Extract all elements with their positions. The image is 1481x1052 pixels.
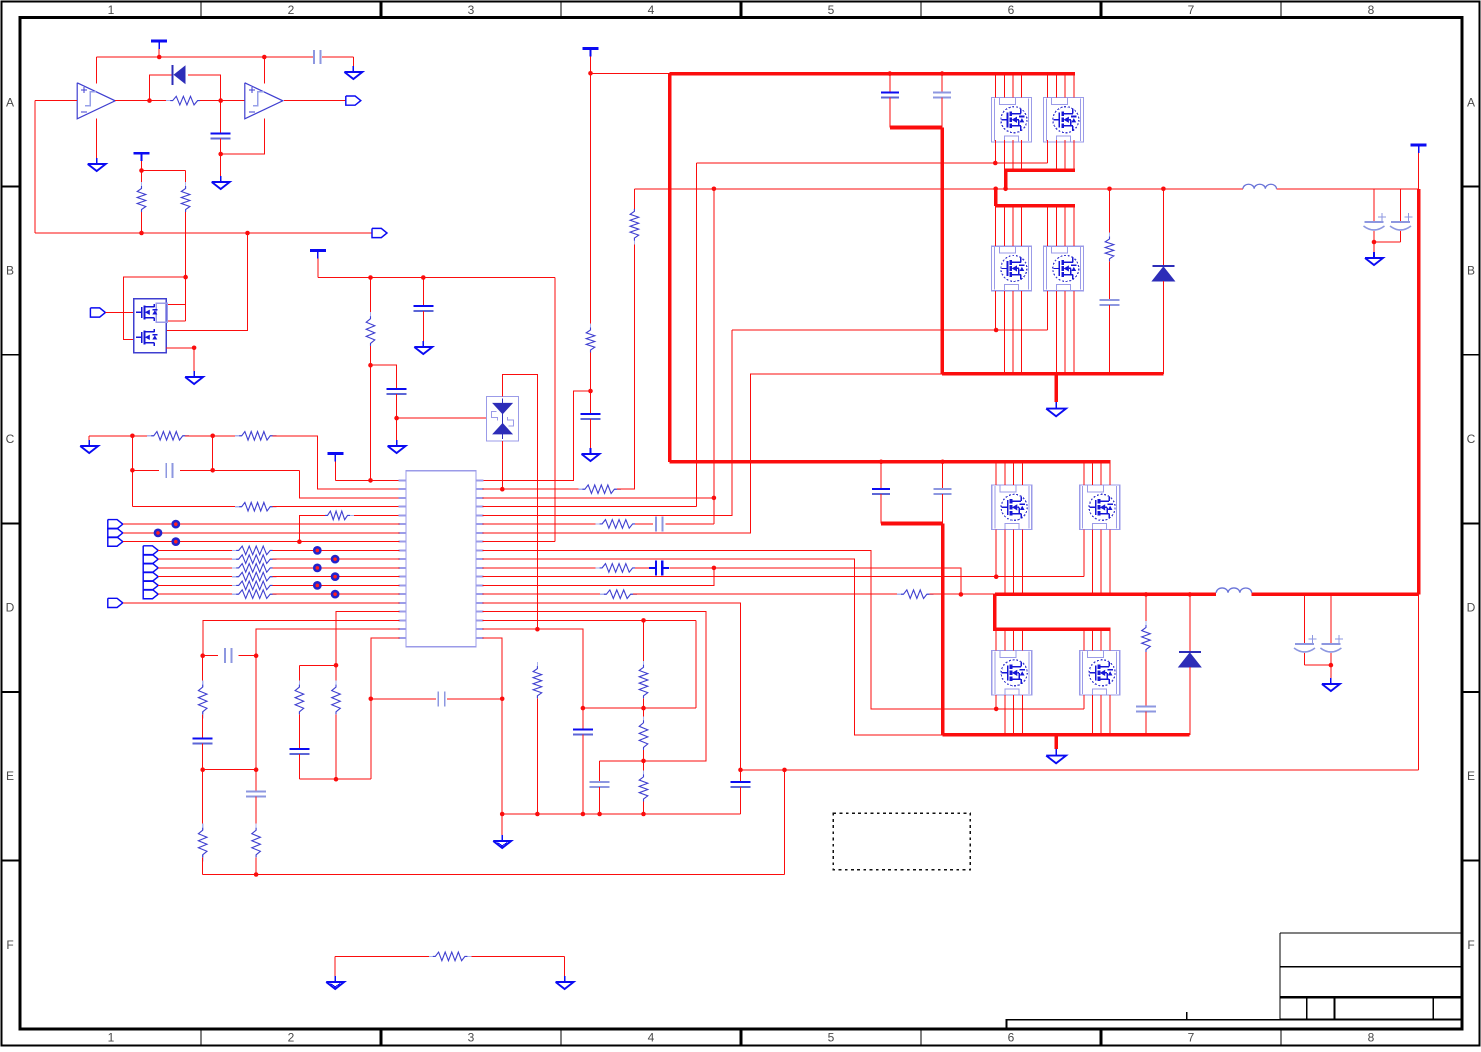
svg-text:4: 4 [648, 3, 655, 17]
svg-text:3: 3 [468, 3, 475, 17]
wire U1A out [115, 100, 170, 102]
row4R [483, 506, 697, 508]
wire snub x396 [371, 365, 397, 389]
capacitor C-655 [224, 648, 226, 663]
wire U1B out [284, 100, 346, 102]
wire x554 down [554, 278, 556, 542]
row18L [256, 629, 399, 656]
power VCC4 (x317) [310, 249, 326, 252]
row12R gate2hi [483, 576, 1084, 578]
capacitor C-comp [437, 691, 439, 706]
capacitor Cout1a [1373, 189, 1375, 222]
resistor R-x370 [370, 278, 372, 317]
wire vcc4 rail [318, 277, 555, 279]
capacitor C-x396 [387, 388, 407, 390]
wire cin gnd thick [890, 126, 942, 130]
row3R [483, 497, 714, 499]
wire fb to U1B [221, 118, 265, 154]
svg-text:2: 2 [288, 3, 295, 17]
resistor R-643c [643, 770, 645, 777]
row15R [483, 603, 741, 770]
row11R [483, 567, 600, 569]
row19R [483, 638, 503, 814]
resistor Ra [147, 435, 154, 437]
wire lowbus2 thick [995, 594, 1111, 629]
port GATE-IN [90, 308, 105, 317]
wire diode loop [150, 75, 173, 101]
network B top [299, 664, 336, 666]
snubber R1 [1109, 189, 1111, 237]
row14R [483, 593, 604, 595]
wire row1R jog [483, 391, 591, 480]
ground U1A [96, 158, 98, 164]
row8R [483, 541, 555, 543]
wire top rail [97, 56, 313, 58]
capacitor C-row11R bold [655, 560, 657, 575]
svg-text:F: F [1467, 938, 1474, 952]
capacitor Cin2b [940, 460, 945, 465]
svg-text:6: 6 [1008, 1031, 1015, 1045]
inductor L1 [1243, 184, 1277, 189]
row2R [483, 488, 583, 490]
resistor R-bottom [429, 955, 436, 957]
wire tvs bottom [501, 441, 503, 489]
network A caps row [200, 653, 205, 658]
wire tvs top [502, 375, 537, 630]
wire netB bottom [299, 778, 370, 780]
resistor R-643b [643, 716, 645, 723]
wire dualfet loop [183, 275, 188, 280]
capacitor Csnub1 [1100, 299, 1120, 301]
wire out2 gnd [1305, 664, 1331, 666]
row16L [336, 612, 400, 666]
diode D-conv2 [1189, 594, 1191, 652]
wire cin2 gnd thick [881, 522, 943, 526]
wire to dualfet drain [166, 233, 247, 331]
wire vin thin [591, 72, 670, 74]
resistor R-336 [335, 665, 337, 684]
capacitor Cout2b [1330, 594, 1332, 644]
svg-text:A: A [6, 95, 14, 109]
wire x696 gate1 vert [696, 163, 698, 507]
svg-text:B: B [1467, 264, 1475, 278]
transistor Q4 [1043, 246, 1083, 291]
transistor Q3 [992, 246, 1032, 291]
wire divider top [142, 170, 186, 172]
capacitor C-299 [298, 714, 300, 749]
row18R [483, 629, 583, 729]
row6R [483, 523, 600, 525]
wire q5q6 to phase2 [1004, 530, 1006, 595]
resistor R-row6R [596, 523, 603, 525]
svg-text:D: D [6, 601, 15, 615]
svg-text:7: 7 [1188, 3, 1195, 17]
wire bus B [35, 232, 372, 234]
capacitor C-row6R [655, 516, 657, 531]
row10R [483, 559, 943, 735]
capacitor C-599 [590, 781, 610, 783]
svg-text:F: F [6, 938, 13, 952]
resistor R-row11R [596, 567, 603, 569]
resistor R-row14R [897, 593, 904, 595]
row16R [483, 612, 707, 761]
wire q7q8 to gnd2 [1004, 695, 1006, 735]
wire opamp supplies [96, 57, 98, 84]
wire q7q8 gates [995, 695, 997, 709]
svg-text:8: 8 [1368, 3, 1375, 17]
svg-text:3: 3 [468, 1031, 475, 1045]
row3L chain [131, 436, 133, 507]
capacitor C-x590 [590, 391, 592, 414]
resistor R-202 [202, 656, 204, 685]
ground C-int [220, 176, 222, 182]
wire q3q4 to gnd bus [1003, 291, 1005, 374]
resistor R-256 [255, 797, 257, 828]
ground C-x423 [422, 341, 424, 347]
capacitor Csnub2 [1136, 705, 1156, 707]
capacitor C-740 [731, 781, 751, 783]
wire gnd bus1 thick [942, 372, 1163, 376]
resistor R-row4L [235, 506, 242, 508]
snubber R2 [1145, 594, 1147, 625]
capacitor Cout2a [1304, 594, 1306, 644]
transistor Q-dual [134, 299, 167, 353]
transistor Q2 [1043, 98, 1083, 143]
ground row2L [88, 440, 90, 446]
wire gate1 line [697, 162, 1048, 164]
wire x714 [713, 189, 715, 524]
row7R [483, 374, 944, 533]
transistor Q7 [992, 651, 1032, 696]
row19L [371, 638, 400, 779]
wire rc1 row [583, 707, 696, 709]
wire x784 [784, 770, 786, 875]
capacitor C-202 [202, 714, 204, 738]
row5L [350, 514, 400, 516]
capacitor Cin1a [889, 74, 891, 93]
resistor Rd2 [185, 182, 187, 189]
resistor R-row14Ra [600, 593, 607, 595]
resistor R-fb [166, 100, 173, 102]
resistor R-row2R [578, 488, 585, 490]
TVS D-tvs [487, 396, 519, 441]
wire q1q2 source bus [1003, 140, 1005, 171]
capacitor C-582 [573, 728, 593, 730]
svg-text:2: 2 [288, 1031, 295, 1045]
ground out1 [1373, 252, 1375, 258]
wire bottom bus [203, 874, 785, 876]
wire bus 814 [502, 813, 740, 815]
resistor R-x634 [633, 205, 635, 212]
svg-text:B: B [6, 264, 14, 278]
wire divider bottoms [141, 212, 143, 233]
op-amp U1A [77, 83, 115, 119]
row17R [483, 619, 697, 621]
wire x740 cap [740, 770, 742, 782]
resistor R-202b [202, 770, 204, 828]
port P10 [108, 598, 123, 607]
wire dualfet source [166, 347, 194, 349]
wire phase2 thick [995, 593, 1216, 597]
wire feedback y770 [741, 769, 1419, 771]
ground topright [352, 66, 354, 72]
row17L [203, 620, 399, 655]
ground bottom right [564, 956, 566, 976]
capacitor Cin1b [941, 74, 943, 93]
capacitor C-x423 [422, 278, 424, 306]
wire vout1 down thick [1417, 189, 1421, 595]
ground bottom left [334, 956, 336, 976]
ground dualfet [193, 371, 195, 377]
ground C-x590 [590, 448, 592, 454]
capacitor C-int [211, 132, 231, 134]
resistor R-x590 [590, 324, 592, 331]
wire x256 chain [255, 656, 257, 770]
resistor R-299 [298, 681, 300, 688]
wire U1A input [35, 100, 77, 102]
svg-text:E: E [1467, 769, 1475, 783]
row9R [483, 550, 1084, 709]
node dots group2 [313, 546, 322, 555]
resistor R-643a [643, 661, 645, 668]
row5R [483, 330, 732, 515]
port OUT1 [346, 96, 361, 105]
capacitor C-topright [313, 50, 315, 64]
svg-text:8: 8 [1368, 1031, 1375, 1045]
transistor Q6 [1080, 485, 1120, 529]
ground bus814 [501, 814, 503, 835]
capacitor Cout1b [1400, 189, 1402, 222]
svg-text:6: 6 [1008, 3, 1015, 17]
resistor R-537 [536, 662, 538, 669]
power VCC3 (x590) [583, 47, 599, 50]
power VCC row1L [327, 452, 343, 455]
wire row1L [335, 479, 399, 481]
svg-text:1: 1 [108, 1031, 115, 1045]
power VCC top [151, 40, 167, 43]
wire cap branch [220, 101, 222, 134]
capacitor C-256 [255, 770, 257, 792]
ports group1 [108, 520, 123, 529]
svg-text:C: C [6, 432, 15, 446]
transistor Q1 [992, 98, 1032, 143]
wire low bus1 [994, 189, 998, 206]
svg-text:4: 4 [648, 1031, 655, 1045]
resistor Rd1 [141, 182, 143, 189]
wire bottom link [335, 955, 433, 957]
port OUT2 [372, 228, 387, 237]
wire U1A gnd [96, 118, 98, 158]
wire tvs left [397, 417, 487, 419]
diode D1 [172, 65, 174, 85]
wire comp cap row [371, 698, 436, 700]
inductor L2 [1216, 588, 1252, 593]
op-amp U1B [245, 83, 283, 119]
ground out2 [1330, 678, 1332, 684]
svg-text:D: D [1467, 601, 1476, 615]
svg-text:C: C [1467, 432, 1476, 446]
capacitor Cin2a [879, 460, 884, 465]
wire x590 down [590, 73, 592, 327]
ports group2 with resistors [143, 546, 158, 555]
wire VIN bus thick [670, 72, 1075, 76]
power VCC2 [134, 152, 150, 155]
wire gnd bus2 thick [943, 733, 1190, 737]
resistor Rb [235, 435, 242, 437]
wire x599 cap [599, 761, 601, 782]
transistor Q5 [992, 485, 1032, 529]
svg-text:7: 7 [1188, 1031, 1195, 1045]
wire phase1 [634, 188, 1243, 190]
wire gate2 line [732, 329, 1048, 331]
svg-text:1: 1 [108, 3, 115, 17]
svg-text:5: 5 [828, 1031, 835, 1045]
svg-text:E: E [6, 769, 14, 783]
transistor Q8 [1080, 651, 1120, 696]
op IC box [406, 471, 476, 647]
ground conv2 [1055, 749, 1057, 756]
resistor R-row5L [321, 514, 328, 516]
node dots group1 [171, 520, 180, 529]
ground C-x396 [396, 440, 398, 446]
ground conv1 [1055, 402, 1057, 409]
row13R [483, 568, 714, 586]
svg-text:5: 5 [828, 3, 835, 17]
diode D-conv1 [1162, 189, 1164, 266]
capacitor C-row3L [165, 463, 167, 478]
power VOUT1 [1411, 144, 1427, 147]
wire out1 gnd [1374, 241, 1401, 243]
svg-text:A: A [1467, 95, 1475, 109]
row4L [132, 506, 239, 508]
